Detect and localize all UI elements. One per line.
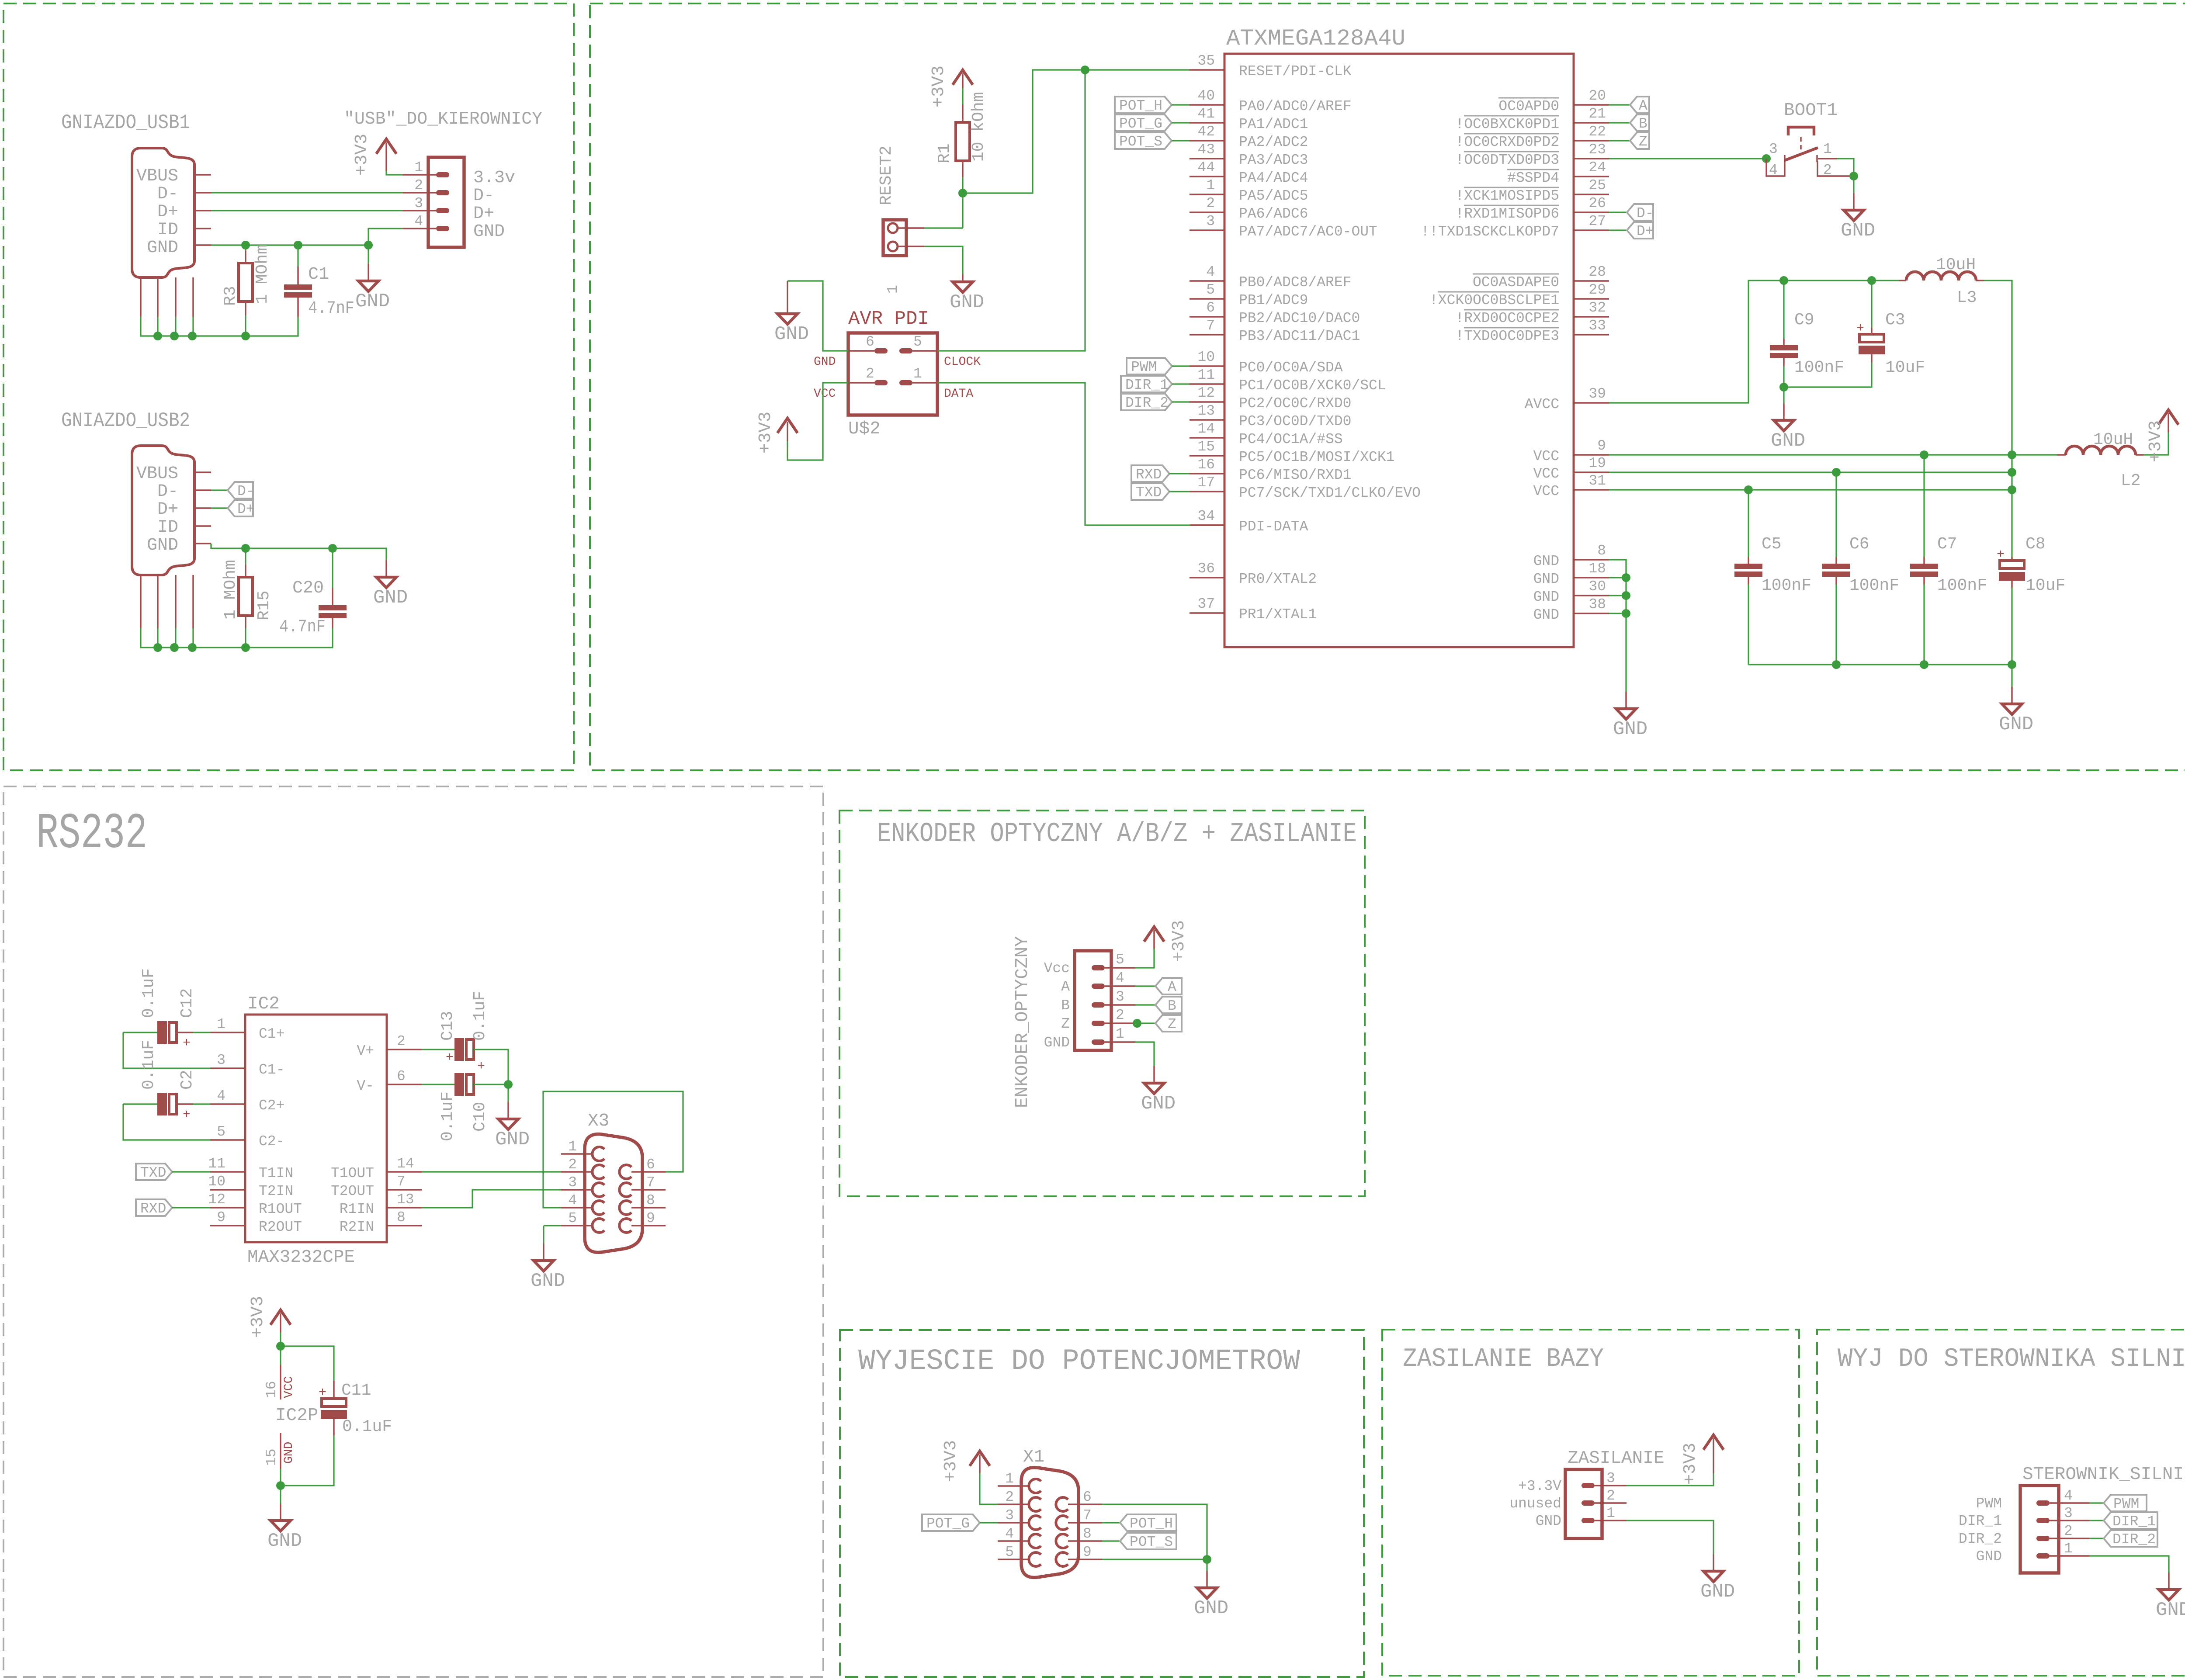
svg-text:R3: R3: [221, 286, 240, 306]
svg-text:PC2/OC0C/RXD0: PC2/OC0C/RXD0: [1239, 395, 1351, 412]
svg-text:ZASILANIE BAZY: ZASILANIE BAZY: [1403, 1344, 1604, 1374]
X3 pin 8 contact: [619, 1201, 631, 1215]
svg-text:GNIAZDO_USB1: GNIAZDO_USB1: [61, 111, 190, 134]
svg-text:37: 37: [1197, 596, 1215, 612]
svg-text:42: 42: [1197, 124, 1215, 140]
IC2 pin 13 stub (R1IN): [387, 1207, 422, 1208]
svg-text:32: 32: [1588, 300, 1606, 316]
wire X1 pin9 to GND: [1102, 1559, 1207, 1571]
net flag RXD: [136, 1199, 172, 1217]
pin 1 stub (PA5/ADC5): [1190, 194, 1224, 195]
svg-text:DIR_1: DIR_1: [1125, 377, 1169, 393]
svg-text:+3V3: +3V3: [1169, 920, 1189, 962]
svg-text:VCC: VCC: [1533, 466, 1559, 482]
svg-text:24: 24: [1588, 159, 1606, 176]
wire D+ to flag: [211, 507, 228, 509]
svg-text:TXD: TXD: [140, 1165, 166, 1181]
ENKODER pin 2 stub: [1105, 1022, 1135, 1024]
+3V3 supply (R1): [929, 66, 973, 107]
svg-text:44: 44: [1197, 159, 1215, 176]
svg-text:GNIAZDO_USB2: GNIAZDO_USB2: [61, 409, 190, 432]
svg-text:7: 7: [1083, 1507, 1092, 1524]
ENKODER pin 5 stub: [1105, 967, 1135, 968]
wire C6 bottom: [1835, 585, 1837, 665]
net flag POT_G: [922, 1514, 980, 1532]
svg-text:10uF: 10uF: [2025, 576, 2065, 595]
pin 17 stub (PC7/SCK/TXD1/CLKO/EVO): [1190, 491, 1224, 492]
svg-text:0.1uF: 0.1uF: [438, 1091, 457, 1141]
svg-text:POT_G: POT_G: [1119, 116, 1162, 132]
overline for #SSPD4: [1507, 169, 1559, 170]
wire pin3 to +3V3: [1627, 1473, 1713, 1486]
svg-text:GND: GND: [1536, 1513, 1561, 1529]
wire L2 to +3V3: [2143, 433, 2168, 455]
STEROWNIK pin 4 stub: [2050, 1502, 2089, 1503]
junction X1 GND: [1203, 1555, 1211, 1564]
wire RXD: [1169, 473, 1190, 474]
X1 pin 1 stub: [998, 1485, 1029, 1486]
pin VBUS stub USB1: [194, 174, 211, 175]
svg-text:GND: GND: [1613, 718, 1647, 740]
net flag Z: [1155, 1015, 1182, 1032]
pin GND stub USB2: [194, 543, 211, 544]
capacitor C11 (polarized): [319, 1386, 347, 1419]
capacitor C1 pins: [297, 267, 298, 317]
junction: [188, 332, 197, 340]
svg-text:Z: Z: [1168, 1016, 1176, 1032]
svg-text:10uH: 10uH: [2093, 430, 2133, 449]
svg-text:9: 9: [217, 1209, 225, 1226]
svg-text:1: 1: [913, 366, 922, 382]
svg-text:12: 12: [208, 1192, 225, 1208]
pin 42 stub (PA2/ADC2): [1190, 140, 1224, 141]
overline for !XCK1MOSIPD5: [1464, 187, 1559, 188]
svg-text:Z: Z: [1639, 134, 1647, 150]
ZASILANIE pin 3 pad: [1582, 1483, 1595, 1488]
pin 26 stub (!RXD1MISOPD6): [1574, 211, 1609, 213]
svg-text:PA6/ADC6: PA6/ADC6: [1239, 206, 1308, 222]
svg-text:R15: R15: [255, 591, 274, 620]
svg-text:PC5/OC1B/MOSI/XCK1: PC5/OC1B/MOSI/XCK1: [1239, 449, 1394, 465]
svg-text:27: 27: [1588, 213, 1606, 229]
svg-text:36: 36: [1197, 561, 1215, 577]
wire BOOT1 to GND: [1837, 159, 1854, 193]
svg-text:A: A: [1168, 979, 1176, 995]
junction: [2008, 468, 2016, 477]
svg-text:30: 30: [1588, 578, 1606, 595]
wire rail to C3: [1871, 281, 1872, 328]
IC IC2 MAX3232CPE body: [245, 1015, 387, 1242]
net flag POT_S: [1120, 1533, 1176, 1550]
pin 40 stub (PA0/ADC0/AREF): [1190, 104, 1224, 105]
wire GND net USB1: [211, 244, 368, 246]
svg-text:+3V3: +3V3: [756, 412, 776, 454]
pin 35 stub (RESET/PDI-CLK): [1190, 69, 1224, 70]
junction C9 GND: [1779, 383, 1788, 391]
svg-text:PC6/MISO/RXD1: PC6/MISO/RXD1: [1239, 467, 1351, 483]
wire DIR_2: [1172, 401, 1190, 402]
wire D- net USB1 to header: [211, 192, 403, 193]
svg-text:1: 1: [1606, 1505, 1615, 1521]
svg-text:C2: C2: [178, 1070, 197, 1090]
wire POT_G: [1172, 122, 1190, 123]
svg-text:V+: V+: [357, 1043, 374, 1059]
pin 10 stub (PC0/OC0A/SDA): [1190, 365, 1224, 367]
svg-text:3: 3: [2064, 1505, 2073, 1521]
wire D+ net USB1 to header: [211, 210, 403, 211]
svg-text:2: 2: [397, 1033, 406, 1050]
ZASILANIE pin 1 pad: [1582, 1518, 1595, 1523]
pin 23 stub (!OC0DTXD0PD3): [1574, 158, 1609, 159]
AVR PDI pin 2 pad: [874, 380, 888, 385]
X1 pin 4 contact: [1029, 1534, 1041, 1548]
svg-text:3: 3: [217, 1052, 225, 1068]
capacitor C3 (polarized): [1856, 321, 1885, 354]
svg-text:GND: GND: [1533, 571, 1559, 587]
svg-text:V-: V-: [357, 1078, 374, 1094]
svg-text:B: B: [1168, 998, 1176, 1014]
svg-text:D+: D+: [157, 500, 178, 520]
svg-text:D+: D+: [1637, 223, 1654, 239]
svg-text:3: 3: [568, 1174, 577, 1191]
svg-text:IC2: IC2: [247, 994, 280, 1014]
IC2 pin 14 stub (T1OUT): [387, 1171, 422, 1172]
svg-text:35: 35: [1197, 53, 1215, 69]
svg-text:2: 2: [414, 177, 423, 194]
svg-text:D-: D-: [473, 186, 494, 206]
STEROWNIK pin 3 stub: [2050, 1520, 2089, 1521]
inductor L2 pins: [2057, 454, 2143, 455]
ground GND (AVR PDI): [774, 281, 809, 345]
net flag PWM: [2104, 1495, 2147, 1512]
svg-text:8: 8: [397, 1209, 406, 1226]
wire C12 to pin1: [193, 1032, 210, 1033]
wire DIR_1: [2089, 1520, 2104, 1521]
pin 24 stub (#SSPD4): [1574, 176, 1609, 177]
frame USB section (top-left): [3, 3, 574, 770]
ground GND (RESET2): [950, 274, 984, 313]
svg-text:4: 4: [1206, 264, 1215, 280]
svg-text:18: 18: [1588, 561, 1606, 577]
svg-text:13: 13: [1197, 403, 1215, 419]
STEROWNIK pin 2 stub: [2050, 1538, 2089, 1539]
svg-text:ENKODER_OPTYCZNY: ENKODER_OPTYCZNY: [1013, 936, 1033, 1108]
svg-text:33: 33: [1588, 318, 1606, 334]
ZASILANIE pin 2 stub: [1595, 1502, 1627, 1503]
ground GND (IC2P): [267, 1503, 302, 1552]
capacitor C20 pins: [332, 588, 333, 628]
ground GND (BOOT1): [1841, 193, 1875, 242]
pin 2 stub (PA6/ADC6): [1190, 211, 1224, 213]
X3 pin 5 stub: [561, 1225, 593, 1226]
pin 32 stub (!RXD0OC0CPE2): [1574, 316, 1609, 317]
svg-text:11: 11: [1197, 367, 1215, 383]
wire USB2 shield GND rail: [141, 628, 333, 648]
overline for !OC0DTXD0PD3: [1464, 151, 1559, 152]
svg-text:GND: GND: [774, 323, 809, 345]
USB1 shield pins: [141, 277, 193, 317]
svg-text:!RXD0OC0CPE2: !RXD0OC0CPE2: [1455, 310, 1559, 326]
wire AVR PDI VCC to +3V3: [787, 383, 848, 460]
connector STEROWNIK_SILNIKA_DC body: [2020, 1486, 2059, 1573]
net flag DIR_2: [1121, 394, 1172, 411]
junction rail/C3: [1867, 276, 1876, 285]
STEROWNIK pin 1 stub: [2050, 1555, 2089, 1556]
svg-text:PA2/ADC2: PA2/ADC2: [1239, 134, 1308, 150]
svg-text:AVR PDI: AVR PDI: [848, 308, 929, 330]
svg-text:D-: D-: [157, 482, 178, 502]
svg-text:6: 6: [866, 334, 874, 350]
net flag DIR_2: [2104, 1530, 2157, 1548]
X3 pin 9 stub: [631, 1225, 666, 1226]
wire VCC row 9: [1609, 454, 2057, 455]
+3V3 supply (X1): [941, 1440, 990, 1482]
pin 36 stub (PR0/XTAL2): [1190, 577, 1224, 578]
capacitor C2 (polarized): [157, 1093, 191, 1122]
pin 19 stub (VCC): [1574, 471, 1609, 473]
pin D- stub USB1: [194, 192, 211, 193]
wire Z: [1609, 140, 1630, 141]
X3 pin 6 stub: [631, 1171, 666, 1172]
svg-text:28: 28: [1588, 264, 1606, 280]
svg-text:PA1/ADC1: PA1/ADC1: [1239, 116, 1308, 132]
wire C3 bottom / GND rail: [1784, 363, 1872, 403]
svg-text:PC1/OC0B/XCK0/SCL: PC1/OC0B/XCK0/SCL: [1239, 378, 1386, 394]
svg-text:POT_S: POT_S: [1130, 1534, 1173, 1550]
pin 38 stub (GND): [1574, 613, 1609, 614]
net flag B: [1630, 114, 1649, 132]
svg-text:ATXMEGA128A4U: ATXMEGA128A4U: [1226, 26, 1405, 52]
STEROWNIK pin 2 pad: [2036, 1536, 2050, 1541]
header pin 2 pad: [436, 190, 449, 195]
svg-text:C5: C5: [1762, 535, 1782, 554]
svg-text:!OC0DTXD0PD3: !OC0DTXD0PD3: [1455, 152, 1559, 168]
svg-text:R2OUT: R2OUT: [259, 1219, 302, 1235]
svg-text:100nF: 100nF: [1849, 576, 1899, 595]
AVR PDI pin 5 pad: [899, 348, 912, 353]
svg-text:3: 3: [1116, 989, 1124, 1005]
svg-text:9: 9: [1597, 438, 1606, 454]
wire C9 bottom: [1783, 366, 1784, 387]
svg-text:!XCK1MOSIPD5: !XCK1MOSIPD5: [1455, 188, 1559, 204]
header pin 3 stub: [403, 210, 438, 211]
resistor R1: [956, 122, 970, 161]
wire Z to flag: [1135, 1022, 1155, 1024]
IC2P GND pin: [280, 1433, 281, 1469]
pin 8 stub (GND): [1574, 559, 1609, 560]
wire C7 bottom: [1923, 585, 1925, 665]
IC2 pin 2 stub (V+): [387, 1049, 422, 1050]
wire GND stubs: [1609, 578, 1626, 613]
X3 pin 7 stub: [631, 1189, 666, 1190]
svg-text:3: 3: [1206, 213, 1215, 229]
wire POT_H: [1172, 104, 1190, 105]
pin VBUS stub USB2: [194, 471, 211, 473]
frame WYJESCIE DO POTENCJOMETROW section: [840, 1330, 1364, 1677]
svg-text:GND: GND: [1533, 589, 1559, 605]
pin 41 stub (PA1/ADC1): [1190, 122, 1224, 123]
svg-text:C1-: C1-: [259, 1062, 284, 1078]
svg-text:26: 26: [1588, 195, 1606, 211]
wire X3 pin5 to GND: [544, 1226, 561, 1244]
svg-text:U$2: U$2: [848, 419, 881, 439]
ZASILANIE pin 3 stub: [1595, 1485, 1627, 1486]
pin 3 stub (PA7/ADC7/AC0-OUT): [1190, 229, 1224, 231]
AVR PDI pin 6 pad: [874, 348, 888, 353]
svg-text:D-: D-: [157, 184, 178, 204]
X1 pin 1 contact: [1029, 1479, 1041, 1493]
capacitor C5: [1734, 564, 1762, 577]
svg-text:D-: D-: [237, 483, 255, 499]
pin 15 stub (PC5/OC1B/MOSI/XCK1): [1190, 455, 1224, 456]
connector GNIAZDO_USB1 (USB socket J1): [132, 148, 194, 277]
svg-text:!OC0CRXD0PD2: !OC0CRXD0PD2: [1455, 134, 1559, 150]
svg-text:2: 2: [1823, 162, 1832, 178]
svg-text:4: 4: [414, 213, 423, 229]
svg-text:1: 1: [1206, 177, 1215, 194]
pin 4 stub (PB0/ADC8/AREF): [1190, 280, 1224, 281]
wire GND: [2089, 1556, 2169, 1573]
svg-text:4: 4: [1005, 1526, 1014, 1542]
X1 pin 5 stub: [998, 1559, 1029, 1560]
pin 34 stub (PDI-DATA): [1190, 524, 1224, 526]
wire junction to GND: [507, 1084, 509, 1102]
svg-text:PR0/XTAL2: PR0/XTAL2: [1239, 571, 1317, 587]
junction: [1920, 450, 1928, 459]
X3 pin 6 contact: [619, 1165, 631, 1179]
ground GND (AVCC filter): [1771, 403, 1805, 452]
IC2 pin 1 stub (C1+): [210, 1032, 245, 1033]
capacitor C1: [284, 284, 312, 298]
X3 pin 5 contact: [592, 1219, 604, 1233]
connector U$2 AVR PDI body: [848, 333, 937, 415]
net flag D+: [1627, 222, 1654, 239]
net flag POT_H: [1120, 1514, 1176, 1532]
pin 25 stub (!XCK1MOSIPD5): [1574, 194, 1609, 195]
svg-text:8: 8: [1597, 543, 1606, 559]
svg-text:GND: GND: [950, 291, 984, 313]
overline for !OC0CRXD0PD2: [1464, 133, 1559, 135]
svg-text:ZASILANIE: ZASILANIE: [1568, 1448, 1664, 1469]
svg-text:1: 1: [885, 285, 901, 294]
svg-text:GND: GND: [1771, 430, 1805, 452]
svg-text:3: 3: [1005, 1507, 1014, 1524]
junction: [241, 643, 250, 652]
wire C12 loop pins 1-3: [123, 1032, 210, 1068]
wire V- to C10: [422, 1084, 454, 1085]
ground GND (ZASILANIE): [1700, 1554, 1735, 1603]
svg-text:+3V3: +3V3: [941, 1440, 961, 1482]
svg-text:10uF: 10uF: [1885, 358, 1925, 377]
wire AVCC to filter rail: [1609, 281, 1899, 403]
svg-text:31: 31: [1588, 473, 1606, 489]
wire ENKODER GND: [1135, 1042, 1154, 1066]
svg-text:14: 14: [1197, 421, 1215, 437]
svg-text:PA7/ADC7/AC0-OUT: PA7/ADC7/AC0-OUT: [1239, 224, 1377, 240]
svg-text:PA0/ADC0/AREF: PA0/ADC0/AREF: [1239, 98, 1351, 114]
svg-text:X3: X3: [588, 1111, 609, 1131]
IC2 pin 11 stub (T1IN): [210, 1171, 245, 1172]
net flag DIR_1: [2104, 1512, 2157, 1530]
svg-text:GND: GND: [2156, 1599, 2185, 1621]
svg-text:C10: C10: [471, 1102, 489, 1132]
svg-text:VCC: VCC: [282, 1376, 296, 1398]
svg-text:2: 2: [1206, 195, 1215, 211]
ENKODER pin 4 stub: [1105, 985, 1135, 987]
wire Vcc to +3V3: [1135, 949, 1154, 968]
svg-text:+: +: [477, 1059, 485, 1074]
svg-text:39: 39: [1588, 386, 1606, 402]
overline for OC0ASDAPE0: [1473, 274, 1559, 275]
wire CLOCK net: [937, 70, 1085, 351]
svg-text:!TXD0OC0DPE3: !TXD0OC0DPE3: [1455, 328, 1559, 344]
svg-text:100nF: 100nF: [1937, 576, 1987, 595]
wire A to flag: [1135, 985, 1155, 987]
wire PWM: [2089, 1502, 2104, 1503]
pin 20 stub (OC0APD0): [1574, 104, 1609, 105]
svg-text:2: 2: [1116, 1007, 1124, 1023]
svg-text:DIR_2: DIR_2: [2112, 1531, 2156, 1548]
ground GND (USB1): [355, 264, 390, 312]
wire DIR_1: [1172, 383, 1190, 384]
net flag RXD: [1131, 465, 1169, 483]
net flag POT_G: [1115, 114, 1172, 132]
svg-text:+3V3: +3V3: [352, 134, 372, 176]
net flag DIR_1: [1121, 376, 1172, 393]
junction: [170, 332, 179, 340]
+3V3 supply (ENKODER): [1144, 920, 1189, 962]
net flag POT_S: [1115, 132, 1172, 150]
wire T1OUT to X3 pin2: [422, 1171, 561, 1172]
junction: [1920, 660, 1928, 669]
svg-text:C20: C20: [292, 578, 324, 598]
svg-text:T2IN: T2IN: [259, 1183, 293, 1199]
wire R1IN to X3 pin3: [422, 1190, 561, 1208]
svg-text:"USB"_DO_KIEROWNICY: "USB"_DO_KIEROWNICY: [344, 109, 542, 129]
wire VCC row 19: [1609, 471, 2012, 473]
svg-text:+3V3: +3V3: [929, 66, 949, 107]
svg-text:!RXD1MISOPD6: !RXD1MISOPD6: [1455, 206, 1559, 222]
svg-text:R1: R1: [935, 143, 954, 163]
wire +3V3 to X1 pin2: [980, 1473, 998, 1504]
svg-text:C7: C7: [1937, 535, 1957, 554]
svg-text:WYJ DO STEROWNIKA SILNIKA DC: WYJ DO STEROWNIKA SILNIKA DC: [1838, 1344, 2185, 1374]
svg-text:4: 4: [2064, 1488, 2073, 1504]
overline for !RXD1MISOPD6: [1464, 205, 1559, 206]
resistor R15: [239, 577, 253, 616]
pin 33 stub (!TXD0OC0DPE3): [1574, 334, 1609, 335]
junction +3V3/C11: [276, 1342, 285, 1351]
net flag B: [1155, 997, 1182, 1014]
ENKODER pin 3 stub: [1105, 1004, 1135, 1005]
wire C11 bottom: [281, 1435, 334, 1486]
svg-text:MAX3232CPE: MAX3232CPE: [247, 1247, 355, 1268]
svg-text:7: 7: [1206, 318, 1215, 334]
svg-text:+: +: [446, 1050, 454, 1065]
junction: [1832, 468, 1841, 477]
X1 pin 7 stub: [1068, 1522, 1102, 1523]
svg-text:GND: GND: [1841, 220, 1875, 242]
wire POT_G to X1 pin3: [980, 1522, 998, 1523]
svg-text:4: 4: [1769, 162, 1778, 178]
svg-text:5: 5: [1116, 952, 1124, 968]
+3V3 supply (ZASILANIE): [1681, 1435, 1724, 1485]
svg-text:VCC: VCC: [1533, 483, 1559, 499]
X3 pin 7 contact: [619, 1183, 631, 1197]
IC2 pin 3 stub (C1-): [210, 1067, 245, 1069]
pin 37 stub (PR1/XTAL1): [1190, 612, 1224, 613]
wire +3V3 to header pin1: [386, 171, 403, 175]
